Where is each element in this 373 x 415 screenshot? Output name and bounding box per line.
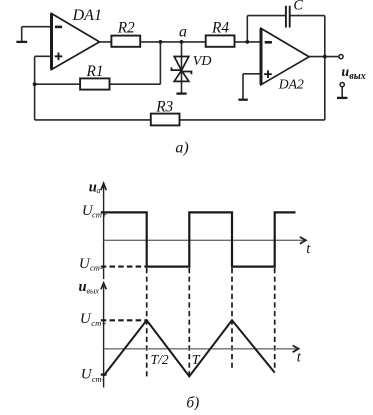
svg-text:u: u [341,65,349,80]
svg-text:а): а) [175,140,188,157]
svg-text:u: u [78,279,86,295]
svg-text:R1: R1 [86,63,104,80]
svg-text:ст-: ст- [92,374,105,384]
svg-text:R3: R3 [155,98,173,115]
svg-text:C: C [293,0,303,14]
svg-text:U: U [80,311,92,327]
svg-text:б): б) [186,395,199,411]
svg-text:DA1: DA1 [72,7,102,24]
svg-text:ст+: ст+ [92,210,108,220]
svg-text:R4: R4 [211,20,229,37]
svg-text:T/2: T/2 [151,352,169,367]
svg-text:VD: VD [193,54,212,69]
svg-text:вых: вых [349,71,365,82]
svg-text:T: T [192,353,201,368]
svg-text:a: a [97,186,101,195]
svg-text:R2: R2 [117,20,135,37]
svg-text:вых: вых [87,287,100,296]
svg-text:ст-: ст- [90,262,103,272]
svg-text:DA2: DA2 [278,76,304,91]
svg-text:ст+: ст+ [91,318,107,328]
svg-text:a: a [179,24,187,41]
